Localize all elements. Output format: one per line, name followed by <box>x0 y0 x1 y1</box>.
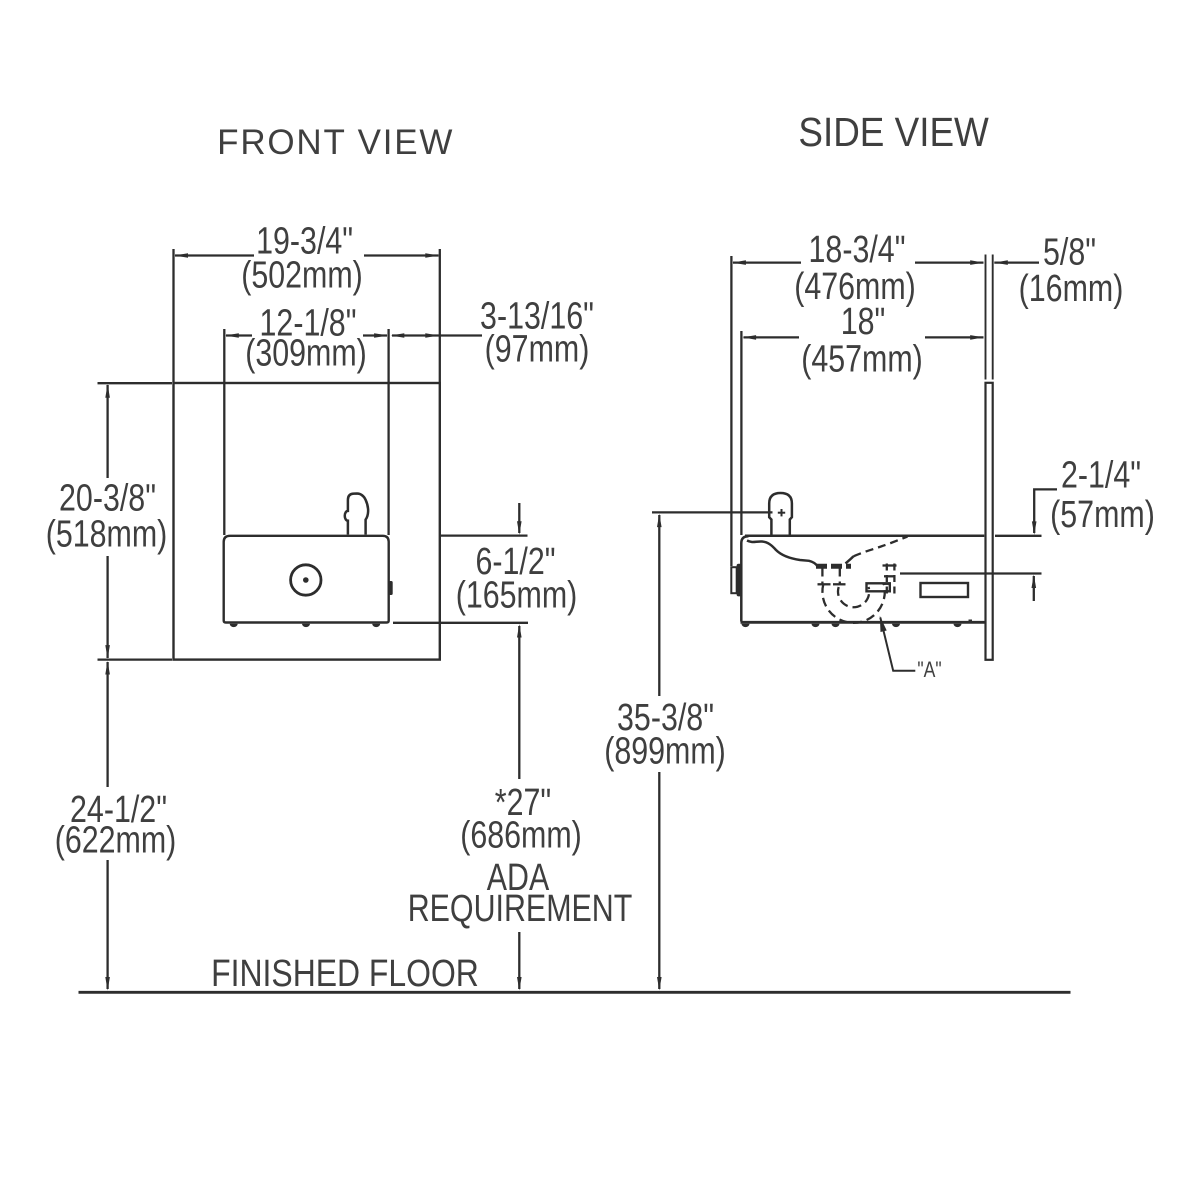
svg-text:18": 18" <box>841 301 886 343</box>
svg-text:(57mm): (57mm) <box>1050 494 1155 536</box>
svg-text:SIDE VIEW: SIDE VIEW <box>798 110 989 155</box>
title SIDE VIEW <box>798 110 989 155</box>
side drain outlet stub <box>867 583 890 591</box>
dim 18 (457mm) <box>741 301 983 535</box>
dim 12-1/8 (309mm) <box>224 302 388 535</box>
dim 3-13/16 (97mm) <box>391 295 594 370</box>
side trap slip joint <box>818 583 831 585</box>
front basin feet <box>230 624 381 627</box>
side push button <box>731 567 736 593</box>
side drain thick dashes <box>816 564 851 569</box>
front push button <box>291 565 321 595</box>
svg-text:(518mm): (518mm) <box>46 513 168 555</box>
svg-text:18-3/4": 18-3/4" <box>809 229 906 271</box>
side fountain front edge <box>741 536 748 621</box>
side trap U bend hidden <box>822 584 884 623</box>
dim 35-3/8 (899mm) <box>604 512 772 990</box>
side trap elbow hidden <box>886 564 888 598</box>
finished floor line <box>79 991 1071 994</box>
side basin far rim hidden <box>854 537 908 557</box>
svg-text:REQUIREMENT: REQUIREMENT <box>408 888 633 930</box>
svg-text:(165mm): (165mm) <box>456 574 578 616</box>
svg-text:(686mm): (686mm) <box>460 814 582 856</box>
dim 18-3/4 (476mm) <box>731 229 983 566</box>
dim 6-1/2 (165mm) <box>393 503 577 638</box>
side access hatch <box>921 583 969 597</box>
side basin near rim <box>747 541 818 567</box>
svg-text:FRONT VIEW: FRONT VIEW <box>217 123 454 162</box>
side trap tailpipe hidden <box>821 569 823 585</box>
dim 24-1/2 (622mm) <box>55 661 177 991</box>
front fountain basin <box>224 536 389 623</box>
title FRONT VIEW <box>217 123 454 162</box>
svg-text:2-1/4": 2-1/4" <box>1061 454 1141 496</box>
side fountain feet <box>742 624 962 627</box>
front mounting panel <box>174 383 440 660</box>
dim 2-1/4 (57mm) <box>900 454 1155 601</box>
front bubbler <box>345 494 368 535</box>
side bubbler cross mark <box>778 512 785 514</box>
dim 19-3/4 (502mm) <box>174 220 440 382</box>
front side bracket bump <box>389 581 393 595</box>
svg-text:(899mm): (899mm) <box>604 730 726 772</box>
side rim rise <box>846 556 854 563</box>
svg-text:(622mm): (622mm) <box>55 819 177 861</box>
svg-text:(97mm): (97mm) <box>485 328 590 370</box>
leader A <box>880 616 942 683</box>
svg-text:(309mm): (309mm) <box>245 332 367 374</box>
side panel extension lines <box>985 255 987 380</box>
side bubbler <box>769 493 792 536</box>
side mounting panel <box>986 383 993 660</box>
side fountain bottom edge <box>741 621 986 624</box>
dim 5/8 (16mm) <box>994 231 1123 309</box>
svg-text:"A": "A" <box>917 658 941 682</box>
dim *27 ADA REQUIREMENT <box>408 626 633 991</box>
side fountain top edge <box>745 535 984 538</box>
svg-text:(457mm): (457mm) <box>801 339 923 381</box>
dim 20-3/8 (518mm) <box>46 383 172 659</box>
svg-text:FINISHED FLOOR: FINISHED FLOOR <box>211 952 479 994</box>
svg-text:(502mm): (502mm) <box>241 254 363 296</box>
svg-text:(16mm): (16mm) <box>1019 268 1124 310</box>
